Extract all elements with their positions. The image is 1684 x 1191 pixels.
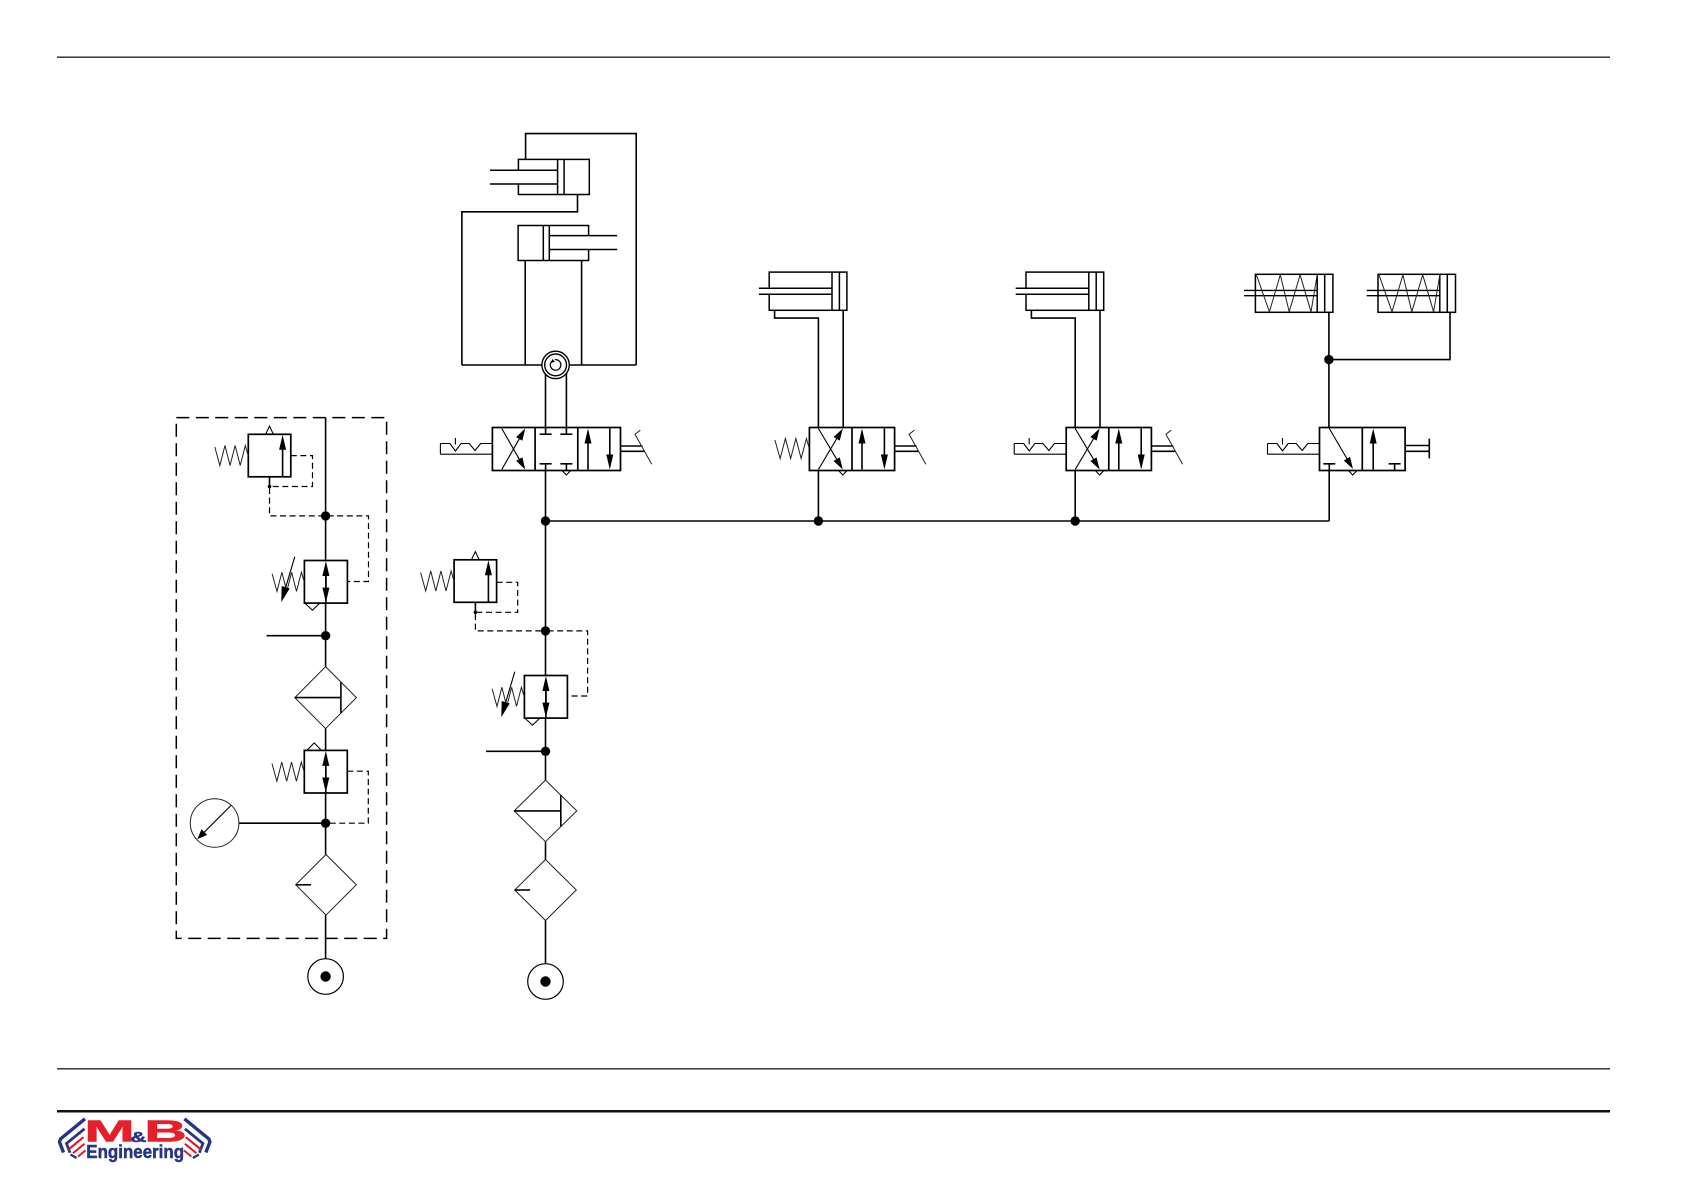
junction main C2 bbox=[814, 516, 823, 525]
wire left unit main upper bbox=[325, 418, 327, 561]
wire RV1 drain stub bbox=[269, 477, 271, 487]
valve V1 left cell crossed arrows bbox=[502, 429, 520, 461]
valve VC3 manual lever bbox=[1151, 445, 1173, 447]
wire cylinder C4b port bbox=[1329, 312, 1450, 359]
valve V4 exhaust triangle bbox=[1348, 471, 1357, 476]
lubricator D2a bbox=[514, 780, 577, 842]
wire cylinder A1 bottom port L-path bbox=[462, 195, 578, 366]
valve V4 plunger bbox=[1405, 445, 1429, 447]
valve V1 manual lever bbox=[621, 445, 643, 447]
wire valve VC3 port 1 to main bbox=[1074, 471, 1076, 522]
svg-text:Engineering: Engineering bbox=[86, 1141, 184, 1162]
wire valve V1 port 1 to main bbox=[545, 471, 547, 522]
wire valve V1 port 2 bbox=[565, 366, 567, 428]
junction left unit 2 bbox=[321, 631, 330, 640]
valve VC2 right cell arrows bbox=[861, 442, 863, 470]
junction right branch 1 bbox=[541, 626, 550, 635]
wire R1 to junction 2 bbox=[325, 603, 327, 666]
cylinder C3 bbox=[1026, 272, 1104, 310]
valve VC2 return spring bbox=[775, 439, 810, 459]
wire R1b to junction 3 bbox=[325, 793, 327, 855]
pilot line RV2 loop bbox=[477, 582, 518, 612]
cylinder A1 bbox=[518, 159, 589, 194]
wire cylinder A2 right port bbox=[581, 261, 583, 366]
logo M&B Engineering bbox=[60, 1119, 86, 1153]
wire assembly bottom manifold bbox=[462, 364, 636, 366]
wire assembly top loop bbox=[526, 134, 637, 365]
wire junction 2 stub left bbox=[267, 635, 326, 637]
wire cylinder A2 left port bbox=[524, 261, 526, 366]
pilot line R1b bbox=[328, 771, 369, 823]
valve V4 return spring bbox=[1268, 444, 1320, 452]
air source S1 bbox=[308, 959, 344, 995]
wire diamonds link bbox=[545, 842, 547, 860]
relief valve RV2 bbox=[454, 560, 497, 603]
regulator R1b bbox=[304, 750, 347, 793]
air source S2 bbox=[528, 964, 564, 1000]
junction left unit 3 bbox=[321, 819, 330, 828]
node RV1 pilot bbox=[268, 485, 272, 489]
rotary indicator bbox=[542, 351, 569, 378]
valve VC3 body bbox=[1066, 428, 1151, 471]
regulator R2 bbox=[524, 676, 567, 719]
wire junction C4 to valve V4 bbox=[1328, 360, 1330, 428]
pilot line R2 bbox=[548, 631, 588, 696]
wire cylinder C2 right port bbox=[842, 310, 844, 427]
valve V1 body bbox=[492, 428, 620, 471]
wire filter to source left bbox=[325, 915, 327, 959]
cylinder C2 bbox=[769, 272, 847, 310]
valve V4 right cell blocked port bbox=[1394, 464, 1396, 471]
valve V4 body bbox=[1320, 428, 1406, 471]
relief valve RV1 bbox=[248, 434, 290, 477]
wire cylinder C3 right port bbox=[1099, 310, 1101, 427]
junction main C3 bbox=[1071, 516, 1080, 525]
valve VC3 exhaust triangle bbox=[1095, 471, 1104, 476]
wire cylinder C3 left port L-path bbox=[1031, 310, 1075, 427]
wire RV2 drain stub bbox=[474, 602, 476, 612]
wire valve V1 port 4 bbox=[545, 366, 547, 428]
valve V1 return spring bbox=[440, 444, 492, 452]
main supply line bbox=[546, 520, 1330, 522]
dashed enclosure bbox=[176, 418, 386, 939]
wire gauge line bbox=[239, 822, 326, 824]
valve V4 left cell diagonal arrow bbox=[1329, 429, 1348, 461]
pilot line RV1 to junction bbox=[270, 488, 324, 516]
valve V1 right cell arrows bbox=[587, 442, 589, 470]
filter D1b bbox=[296, 855, 357, 916]
valve VC3 left cell crossed arrows bbox=[1075, 429, 1094, 461]
wire filter to source bbox=[545, 921, 547, 964]
wire cylinder C4a port bbox=[1328, 312, 1330, 359]
valve VC2 exhaust triangle bbox=[839, 471, 848, 476]
pilot line RV1 loop bbox=[271, 456, 313, 487]
junction C4 bbox=[1324, 355, 1333, 364]
wire R2 to junction 2 bbox=[545, 718, 547, 780]
regulator R1 bbox=[304, 561, 347, 604]
node RV2 pilot bbox=[474, 611, 478, 615]
valve VC2 manual lever bbox=[895, 445, 917, 447]
wire valve V4 port 1 to main bbox=[1328, 471, 1330, 522]
junction main-1 bbox=[541, 516, 550, 525]
cylinder A2 bbox=[518, 226, 589, 261]
wire lubricator to regulator R1b bbox=[325, 729, 327, 751]
valve V4 left cell blocked port bbox=[1328, 464, 1330, 471]
lubricator D1a bbox=[295, 667, 357, 729]
valve VC3 right cell arrows bbox=[1118, 442, 1120, 470]
top rule bbox=[57, 56, 1610, 58]
junction right branch 2 bbox=[541, 747, 550, 756]
cylinder C4b bbox=[1378, 274, 1456, 312]
valve VC3 return spring bbox=[1014, 444, 1066, 452]
valve VC2 body bbox=[809, 428, 894, 471]
wire valve VC2 port 1 to main bbox=[817, 471, 819, 522]
pilot line R1 bbox=[328, 516, 369, 582]
cylinder C4a bbox=[1255, 274, 1333, 312]
wire main riser right branch bbox=[545, 521, 547, 676]
valve V1 exhaust triangle bbox=[562, 471, 571, 476]
junction left unit 1 bbox=[321, 511, 330, 520]
bottom rule thin bbox=[57, 1068, 1610, 1070]
filter D2b bbox=[515, 860, 577, 921]
valve V1 mid cell blocked ports bbox=[545, 428, 547, 435]
wire cylinder C2 left port L-path bbox=[775, 310, 819, 427]
valve VC2 left cell crossed arrows bbox=[818, 429, 837, 461]
bottom rule thick bbox=[57, 1110, 1610, 1113]
wire junction 2 stub bbox=[486, 750, 545, 752]
pilot line RV2 to junction bbox=[475, 614, 543, 631]
valve V4 right cell arrow bbox=[1372, 442, 1374, 470]
pressure gauge bbox=[190, 799, 239, 848]
